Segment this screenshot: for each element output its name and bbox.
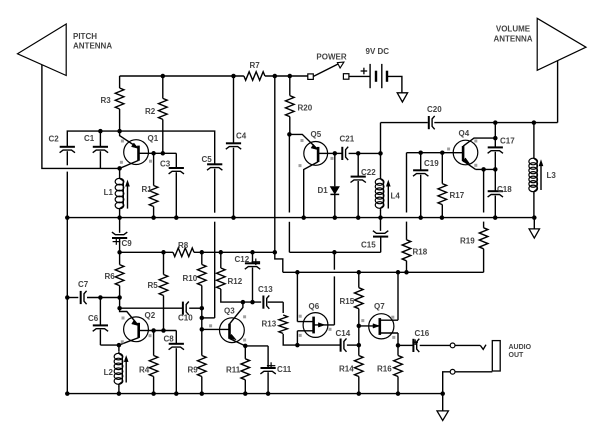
plus C12	[252, 261, 261, 263]
inductor L2	[118, 345, 120, 351]
resistor R6	[119, 252, 121, 264]
resistor R8	[173, 248, 194, 257]
wire battery to ground	[387, 76, 402, 92]
switch POWER terminal 1	[308, 74, 314, 80]
svg-text:R10: R10	[183, 274, 198, 283]
handle Q2 b	[121, 340, 124, 343]
handle Q7 b	[391, 316, 394, 319]
svg-text:C8: C8	[164, 335, 175, 344]
capacitor C2	[60, 146, 75, 148]
node L2 top	[117, 343, 122, 348]
wire C20 rail	[381, 122, 428, 124]
svg-text:C6: C6	[88, 314, 99, 323]
node Q6 source C14	[295, 343, 300, 348]
node C22 top	[356, 151, 361, 156]
node bias C12	[250, 250, 255, 255]
capacitor C17	[494, 123, 496, 148]
node Q3 collector	[241, 300, 246, 305]
resistor R15	[358, 272, 360, 287]
wire main mid rail	[67, 217, 534, 219]
wire Q5 base feedback	[288, 134, 290, 212]
capacitor C5	[207, 163, 222, 165]
svg-text:C10: C10	[178, 314, 193, 323]
node rail L1	[117, 215, 122, 220]
capacitor C1	[99, 131, 101, 147]
capacitor C10	[182, 302, 184, 315]
handle Q3 a	[209, 324, 212, 327]
node rail D1	[333, 215, 338, 220]
svg-text:C14: C14	[336, 329, 351, 338]
svg-text:C7: C7	[78, 280, 89, 289]
svg-text:Q3: Q3	[224, 307, 235, 316]
handle Q5 c	[331, 157, 334, 160]
node mid R18	[404, 270, 409, 275]
wire R15 column	[358, 326, 360, 345]
svg-text:C17: C17	[500, 137, 515, 146]
handle Q1 c	[149, 160, 152, 163]
svg-text:R16: R16	[377, 365, 392, 374]
svg-text:Q1: Q1	[148, 134, 159, 143]
handle Q4 c	[474, 164, 477, 167]
node Q3 emitter	[243, 344, 248, 349]
svg-text:C2: C2	[49, 135, 60, 144]
resistor R20	[289, 76, 291, 96]
handle Q2 a	[122, 317, 125, 320]
handle Q6 a	[299, 315, 302, 318]
svg-text:R14: R14	[339, 365, 354, 374]
wire C6 to L2	[100, 344, 119, 346]
transistor Q6	[303, 313, 328, 338]
node Q5 base	[287, 132, 292, 137]
node rail C2col	[65, 215, 70, 220]
svg-text:R11: R11	[226, 366, 241, 375]
phase arrow L1	[127, 185, 129, 209]
svg-text:AUDIO: AUDIO	[509, 344, 532, 351]
transistor Q5	[304, 142, 328, 166]
transistor Q7	[369, 314, 394, 339]
inductor L4	[380, 153, 382, 176]
svg-text:Q4: Q4	[459, 129, 470, 138]
node L3 top	[532, 120, 537, 125]
diode D1	[334, 153, 336, 186]
phase arrow L4	[387, 185, 389, 208]
terminal jack sleeve	[450, 369, 455, 374]
battery B1	[369, 64, 371, 88]
capacitor C19	[420, 153, 422, 170]
svg-text:Q2: Q2	[145, 311, 156, 320]
ground battery	[397, 93, 407, 102]
svg-text:R18: R18	[413, 248, 428, 257]
wire Q1 collector	[149, 152, 177, 154]
resistor R19	[483, 169, 485, 212]
node R19 top	[481, 167, 486, 172]
wire Q5 collector bus	[328, 152, 342, 154]
resistor R16	[397, 345, 399, 355]
wire C1 C2 top bus	[67, 131, 214, 164]
node gnd R11	[243, 391, 248, 396]
node Q3 base	[200, 327, 205, 332]
capacitor C3	[175, 153, 177, 168]
phase arrow L2	[125, 361, 127, 383]
capacitor C18	[494, 169, 496, 191]
wire Q6 gate	[296, 272, 298, 321]
inductor L1	[122, 181, 124, 207]
wire Q3 emitter link	[245, 345, 268, 347]
handle Q3 c	[243, 339, 246, 342]
node bias R10	[200, 250, 205, 255]
capacitor C7	[80, 291, 82, 304]
node Q2 base	[117, 306, 122, 311]
node C14 right	[357, 343, 362, 348]
node R3 base	[117, 129, 122, 134]
resistor R7	[244, 72, 265, 81]
capacitor C14	[340, 339, 342, 352]
resistor R4	[153, 331, 155, 356]
wire Q7 source	[397, 333, 399, 345]
capacitor C16	[412, 339, 414, 352]
svg-text:C20: C20	[427, 105, 442, 114]
handle Q4 b	[474, 140, 477, 143]
wire C2 ground column	[66, 172, 68, 218]
wire jack sleeve	[455, 371, 492, 373]
pitch antenna	[18, 24, 67, 76]
audio jack J1	[492, 341, 500, 371]
handle Q1 b	[120, 161, 123, 164]
node C6 top	[98, 295, 103, 300]
svg-text:C18: C18	[497, 185, 512, 194]
plus C9	[113, 241, 121, 243]
svg-text:C15: C15	[361, 241, 376, 250]
node R1 top	[151, 151, 156, 156]
handle Q5 a	[301, 139, 304, 142]
svg-text:R1: R1	[142, 185, 153, 194]
svg-text:R9: R9	[188, 366, 199, 375]
node gnd C11	[266, 391, 271, 396]
node mid Q7drain	[396, 270, 401, 275]
handle Q6 b	[299, 334, 302, 337]
terminal jack tip	[450, 343, 455, 348]
svg-text:R19: R19	[460, 237, 475, 246]
svg-text:R17: R17	[450, 191, 465, 200]
svg-text:D1: D1	[318, 186, 329, 195]
ground output	[442, 394, 444, 411]
node C10 right	[200, 306, 205, 311]
node Q1 emitter L1	[117, 166, 122, 171]
node rail C3	[174, 215, 179, 220]
node bias C9	[117, 250, 122, 255]
node ground out	[440, 391, 445, 396]
svg-text:ANTENNA: ANTENNA	[73, 42, 112, 51]
svg-text:L1: L1	[104, 188, 114, 197]
svg-text:C13: C13	[258, 285, 273, 294]
node R20 top	[288, 74, 293, 79]
wire VCC mid rail	[283, 271, 484, 273]
handle Q4 a	[447, 148, 450, 151]
svg-text:9V DC: 9V DC	[366, 47, 390, 56]
node R2 top	[161, 74, 166, 79]
node C17 top	[493, 120, 498, 125]
node gnd R14	[357, 391, 362, 396]
node C19 top	[418, 150, 423, 155]
wire Q7 drain	[397, 272, 399, 320]
node rail R1	[151, 215, 156, 220]
handle Q7 c	[392, 336, 395, 339]
svg-text:R15: R15	[340, 297, 355, 306]
resistor R14	[358, 345, 360, 355]
node gnd R4	[151, 391, 156, 396]
resistor R18	[406, 153, 408, 213]
node gnd R9	[200, 391, 205, 396]
wire Q6 drain	[333, 276, 335, 325]
wire C5 feedback link	[214, 222, 216, 318]
node R5 bottom	[161, 328, 166, 333]
switch POWER terminal 2	[343, 74, 349, 80]
svg-text:Q6: Q6	[309, 302, 320, 311]
capacitor C8	[175, 331, 177, 344]
transistor Q2	[124, 317, 149, 342]
wire C14 bus	[297, 344, 340, 346]
svg-text:C11: C11	[277, 365, 292, 374]
node rail R17	[440, 215, 445, 220]
svg-text:R5: R5	[148, 281, 159, 290]
plus C16	[412, 341, 418, 343]
capacitor C9	[119, 218, 121, 233]
handle Q2 c	[149, 334, 152, 337]
volume antenna	[537, 18, 586, 70]
wire Q2 collector	[148, 330, 176, 332]
svg-text:C12: C12	[235, 255, 250, 264]
resistor R2	[162, 76, 164, 98]
resistor R10	[201, 252, 203, 264]
wire R10 column	[201, 308, 203, 329]
svg-text:C1: C1	[84, 134, 95, 143]
svg-text:C5: C5	[202, 155, 213, 164]
wire bias bus R8	[120, 251, 173, 253]
node V+ column	[273, 74, 278, 79]
svg-text:R12: R12	[228, 277, 243, 286]
node C12 bottom	[250, 300, 255, 305]
resistor R5	[163, 252, 165, 274]
node R6 bottom	[117, 295, 122, 300]
wire pitch antenna	[42, 65, 120, 169]
node C7 left	[65, 295, 70, 300]
plus C11	[267, 365, 275, 367]
svg-text:OUT: OUT	[509, 352, 525, 359]
ground L3	[533, 218, 535, 229]
node gnd C2col	[65, 391, 70, 396]
resistor R3	[119, 76, 121, 88]
node Q6 drain drop	[332, 250, 337, 255]
wire jack tip	[455, 344, 480, 346]
svg-text:C4: C4	[236, 132, 247, 141]
node rail C19	[418, 215, 423, 220]
node C17 C18 junction	[493, 167, 498, 172]
capacitor C20	[428, 116, 430, 129]
node Q7 gate	[357, 324, 362, 329]
node rail L4	[378, 215, 383, 220]
wire ground rail	[67, 393, 442, 395]
capacitor C6	[99, 298, 101, 326]
resistor R9	[201, 329, 203, 355]
wire Q4 bias bus	[407, 152, 455, 154]
capacitor C4	[233, 76, 235, 143]
svg-text:R20: R20	[298, 104, 313, 113]
node Q7 source	[396, 343, 401, 348]
svg-text:L2: L2	[104, 368, 114, 377]
wire top supply rail	[120, 75, 244, 77]
node gnd C8	[174, 391, 179, 396]
node bias Vcol	[273, 250, 278, 255]
capacitor C11	[267, 346, 269, 368]
svg-text:C9: C9	[122, 239, 133, 248]
handle Q1 a	[121, 140, 124, 143]
resistor R1	[153, 153, 155, 185]
wire C10 bus	[120, 307, 183, 309]
svg-text:C21: C21	[340, 135, 355, 144]
handle Q3 b	[243, 315, 246, 318]
handle Q6 c	[329, 328, 332, 331]
resistor R12	[220, 252, 222, 268]
resistor R11	[244, 346, 246, 359]
node mid Q6gate	[295, 270, 300, 275]
svg-text:C19: C19	[424, 159, 439, 168]
svg-text:L3: L3	[547, 171, 557, 180]
svg-text:R6: R6	[105, 272, 116, 281]
svg-text:R2: R2	[145, 107, 156, 116]
node gnd L2	[117, 391, 122, 396]
node rail C18	[493, 215, 498, 220]
handle Q5 b	[299, 164, 302, 167]
node C1 stub	[98, 129, 103, 134]
node gnd R16	[396, 391, 401, 396]
capacitor C13	[262, 296, 264, 309]
wire Q3 collector bus	[243, 301, 261, 303]
node rail Q5e	[301, 215, 306, 220]
wire C16 out	[398, 344, 413, 346]
svg-text:POWER: POWER	[316, 52, 346, 61]
node R2 bottom	[161, 151, 166, 156]
capacitor C22	[357, 153, 359, 176]
svg-text:VOLUME: VOLUME	[496, 25, 531, 34]
capacitor C21	[341, 147, 343, 160]
svg-text:R13: R13	[262, 320, 277, 329]
node rail C22	[356, 215, 361, 220]
transistor Q3	[220, 318, 245, 343]
wire switch to battery	[349, 75, 370, 77]
plus battery	[361, 70, 368, 72]
node R4 top	[151, 328, 156, 333]
wire Q4 emitter	[476, 168, 496, 170]
node L4 top	[378, 151, 383, 156]
svg-text:C16: C16	[415, 329, 430, 338]
svg-text:L4: L4	[391, 192, 401, 201]
svg-text:C3: C3	[160, 160, 171, 169]
transistor Q4	[453, 140, 478, 165]
svg-text:R8: R8	[178, 241, 189, 250]
resistor R17	[441, 153, 443, 184]
node mid R15	[357, 270, 362, 275]
resistor R13	[282, 302, 284, 313]
svg-text:R7: R7	[250, 61, 261, 70]
node C4 top	[231, 74, 236, 79]
svg-text:R4: R4	[139, 366, 150, 375]
node bias R12	[219, 250, 224, 255]
node Q4 collector	[493, 136, 498, 141]
svg-text:Q5: Q5	[311, 130, 322, 139]
inductor L3	[533, 123, 535, 157]
switch POWER lever	[314, 63, 341, 76]
capacitor C15	[380, 218, 382, 231]
svg-text:R3: R3	[101, 96, 112, 105]
node D1 top	[333, 151, 338, 156]
node R17 top	[440, 150, 445, 155]
svg-text:ANTENNA: ANTENNA	[493, 34, 532, 43]
wire C7 link	[67, 297, 78, 299]
wire V+ column drop	[274, 76, 276, 252]
transistor Q1	[124, 140, 149, 165]
svg-text:PITCH: PITCH	[73, 32, 97, 41]
node bias R5	[161, 250, 166, 255]
wire volume antenna	[557, 61, 559, 123]
capacitor C12	[252, 252, 254, 263]
node rail L3 ground	[532, 215, 537, 220]
svg-text:Q7: Q7	[374, 302, 385, 311]
handle Q7 a	[361, 319, 364, 322]
svg-text:C22: C22	[361, 168, 376, 177]
node C5 link	[200, 316, 205, 321]
node rail C4	[231, 215, 236, 220]
phase arrow L3	[540, 165, 542, 190]
